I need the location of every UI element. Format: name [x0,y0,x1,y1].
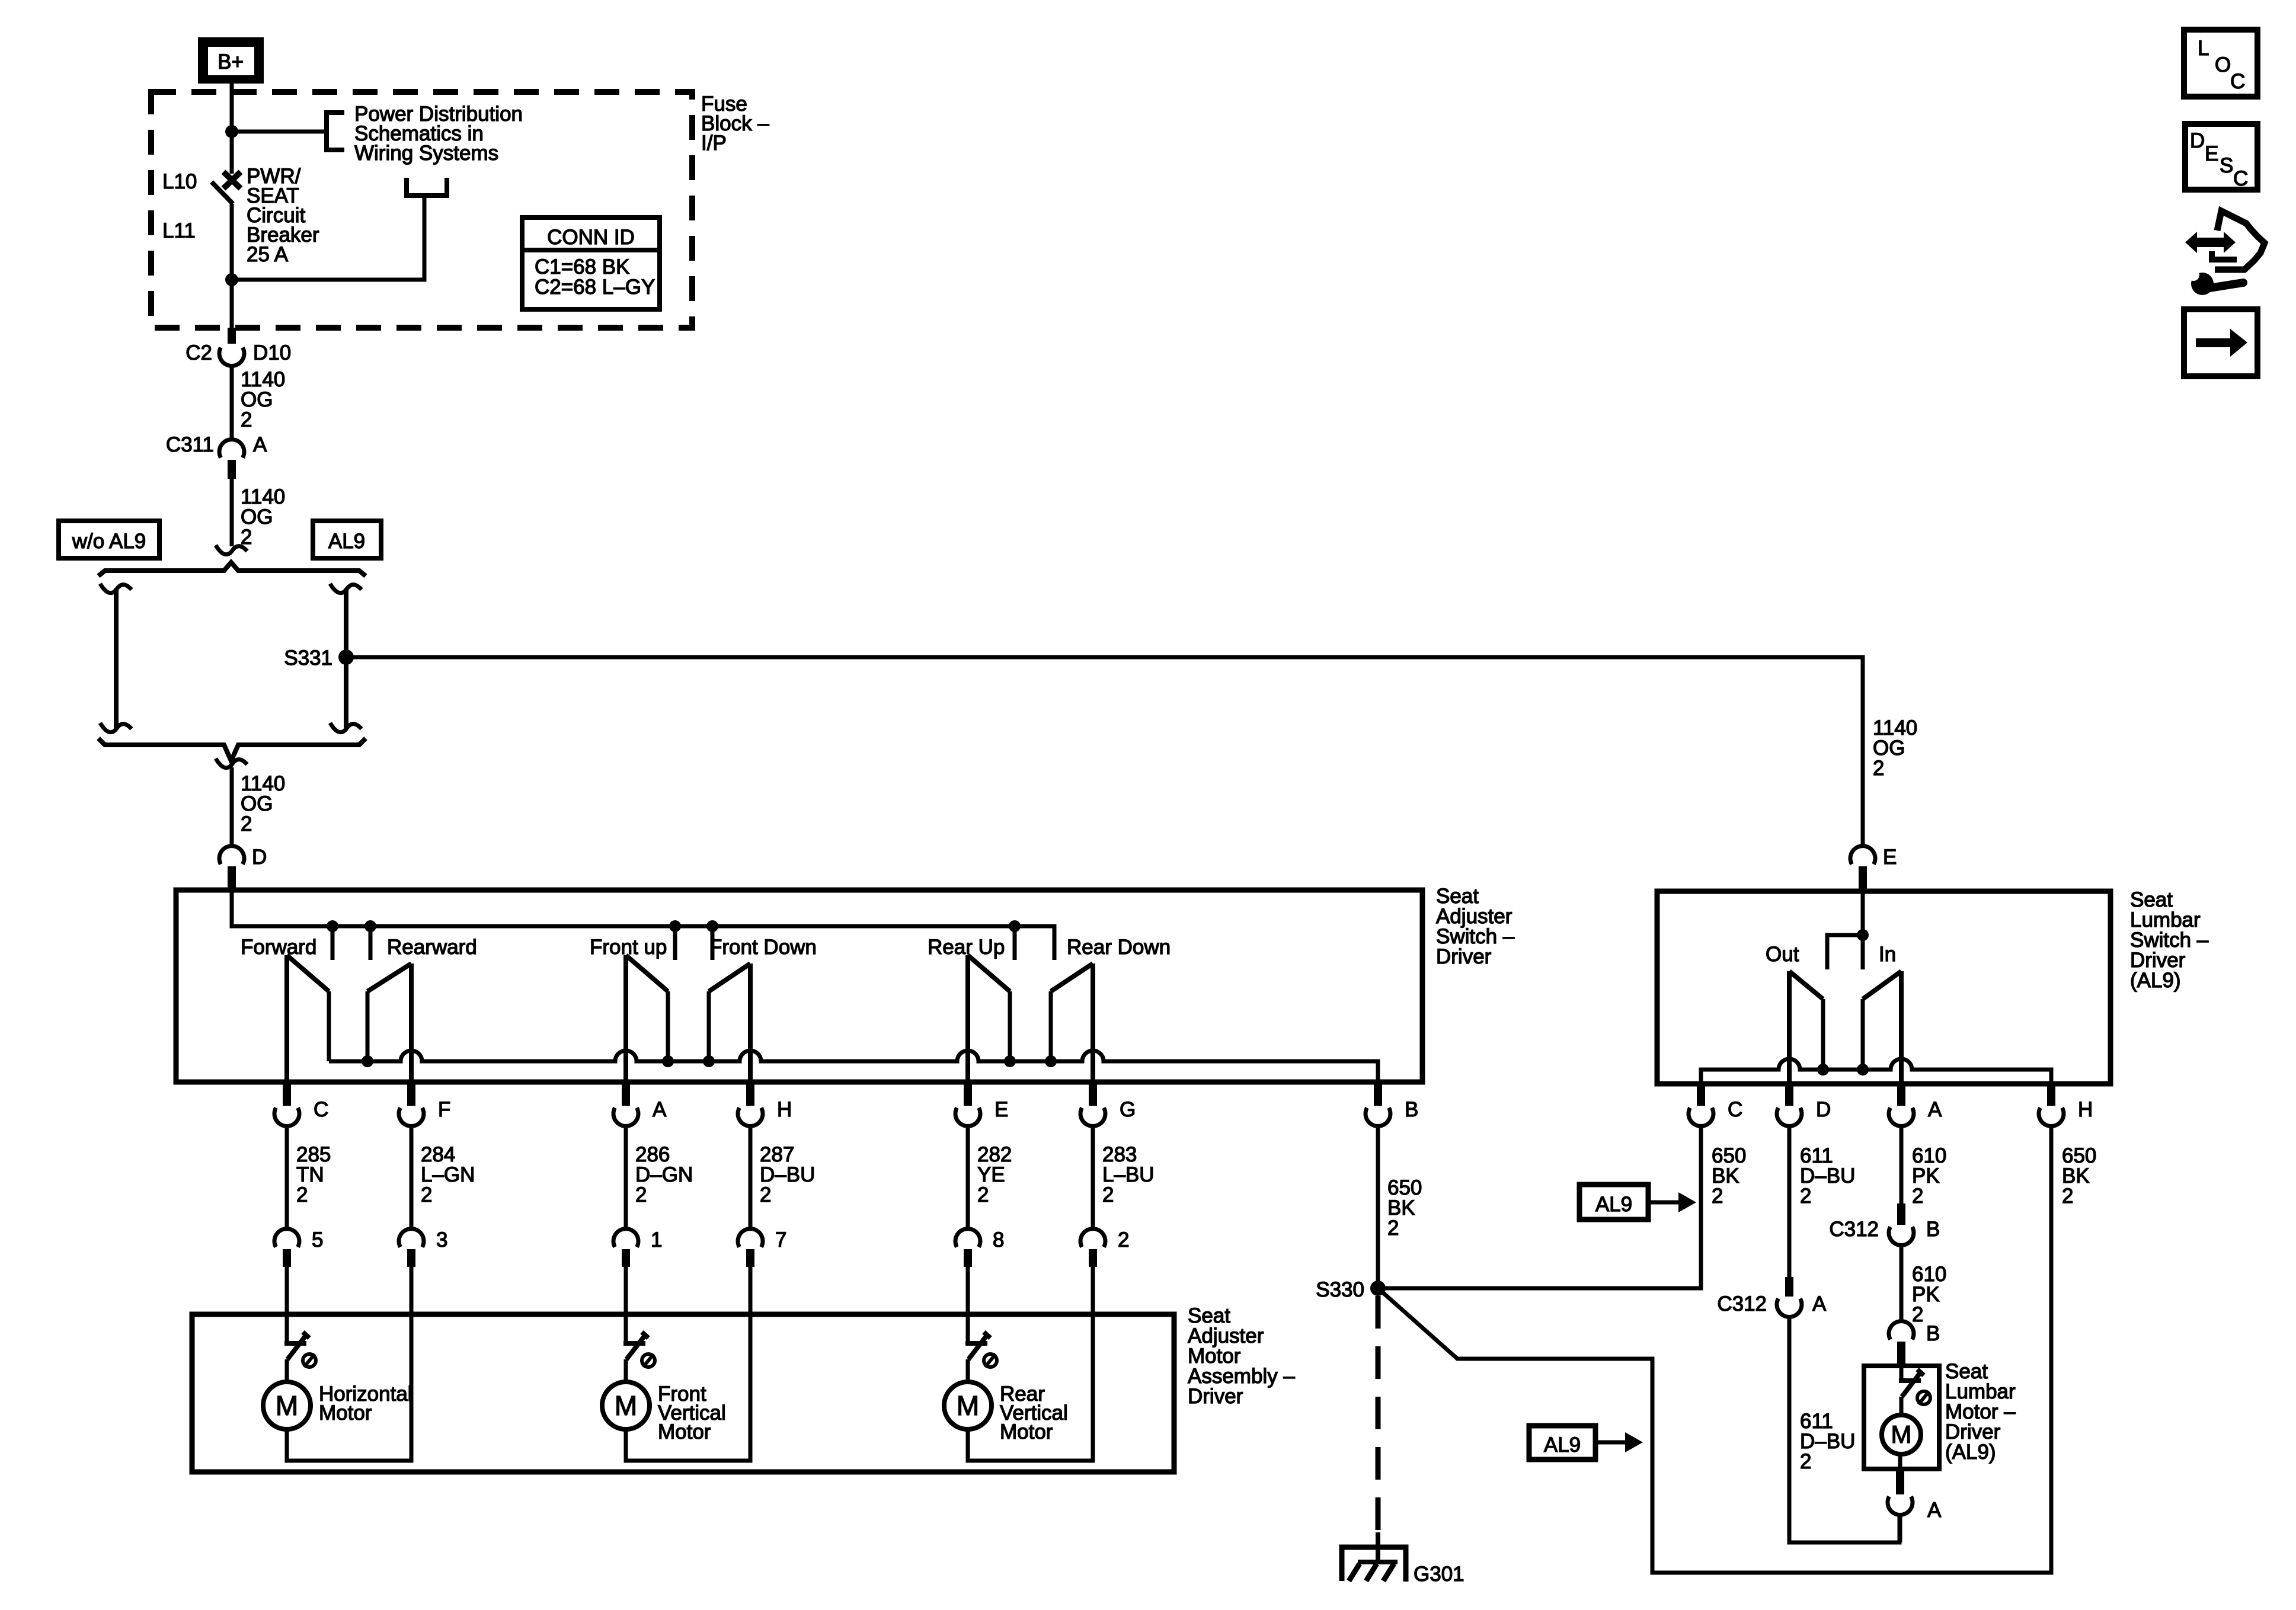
switch Forward [241,936,329,1082]
svg-text:E: E [1883,846,1897,869]
connector C2 pin D10 [186,341,291,366]
svg-text:2: 2 [1712,1185,1723,1208]
wire lumbar feed split [1827,891,1869,969]
reference bracket Power Distribution [327,113,344,150]
svg-text:D10: D10 [253,341,291,364]
wire pin feed to breaker Horizontal Motor [285,1267,289,1343]
label Power Distribution Schematics in Wiring Systems [354,103,523,165]
connector pin 8 seat adjuster motor assembly [955,1228,1004,1267]
svg-text:S330: S330 [1316,1278,1364,1301]
option tag w/o AL9 [59,521,159,558]
svg-text:2: 2 [1387,1217,1399,1240]
svg-text:O: O [2215,53,2231,76]
svg-text:2: 2 [760,1183,771,1206]
wire 1140 OG 2 segment 1 [232,367,285,438]
wire 610 PK 2 to lumbar motor [1901,1247,1946,1326]
motor M1 Horizontal Motor [263,1359,412,1429]
node junction breaker output [225,273,238,286]
svg-text:2: 2 [635,1183,647,1206]
option split brace bottom [98,738,366,761]
svg-text:(AL9): (AL9) [1945,1441,1996,1464]
ground G301 [1342,1532,1464,1586]
wire 282 YE 2 [968,1128,1012,1227]
svg-text:H: H [2078,1098,2093,1121]
switch Front up [590,936,668,1082]
svg-text:Forward: Forward [241,936,316,959]
connector pin 7 seat adjuster motor assembly [738,1228,786,1267]
svg-text:A: A [1812,1292,1827,1315]
switch Rear Down [1051,936,1171,1082]
svg-text:A: A [253,433,267,456]
motor M2 Front Vertical Motor [602,1359,726,1443]
connector pin H seat adjuster switch [738,1083,792,1126]
wire switch common return to pin B [329,1051,1378,1082]
pin L11 [162,219,196,242]
svg-text:L11: L11 [162,219,196,242]
connector pin 1 seat adjuster motor assembly [613,1228,662,1267]
option tag AL9 arrow 2 [1529,1426,1643,1459]
svg-text:E: E [994,1098,1008,1121]
switch Rear Up [928,936,1010,1082]
svg-text:AL9: AL9 [328,530,365,553]
svg-text:In: In [1879,943,1896,966]
connector pin H seat lumbar switch [2039,1084,2093,1126]
circuit breaker PWR/SEAT 25A [212,132,241,280]
wire 287 D–BU 2 [750,1128,815,1227]
svg-text:B: B [1926,1322,1940,1345]
svg-text:2: 2 [1118,1228,1129,1251]
svg-text:H: H [777,1098,792,1121]
svg-text:CONN ID: CONN ID [547,226,635,249]
connector pin A seat adjuster switch [613,1083,667,1126]
wire dashed S330 to ground [1376,1296,1381,1536]
connector pin C seat lumbar switch [1689,1084,1742,1126]
svg-text:S: S [2220,154,2233,177]
svg-text:2: 2 [1912,1303,1923,1326]
splice S331 [284,646,354,670]
label Seat Adjuster Switch - Driver [1436,885,1515,968]
wire label 1140 OG 2 lumbar feed [1873,716,1917,780]
svg-text:2: 2 [1912,1185,1923,1208]
wire 284 L–GN 2 [411,1128,475,1227]
svg-text:1: 1 [651,1228,662,1251]
svg-text:C: C [2233,167,2248,190]
svg-text:C: C [2230,70,2245,93]
wire break symbol below option split [216,758,247,768]
wire S330 to lumbar switch pin H via AL9 branch [1378,1128,2051,1573]
svg-text:B: B [1405,1098,1418,1121]
svg-text:2: 2 [296,1183,308,1206]
node junction on B+ feed [225,125,238,138]
option tag AL9 [313,521,381,558]
svg-text:7: 7 [775,1228,786,1251]
wire 283 L–BU 2 [1093,1128,1155,1227]
svg-text:C: C [314,1098,328,1121]
svg-text:C2=68 L–GY: C2=68 L–GY [535,276,655,299]
svg-text:Wiring Systems: Wiring Systems [354,142,498,165]
svg-text:C311: C311 [166,433,214,456]
switch Rearward [367,936,477,1082]
motor M3 Rear Vertical Motor [944,1359,1068,1443]
svg-text:M: M [957,1390,979,1421]
svg-text:AL9: AL9 [1544,1433,1581,1457]
node junctions on common return [362,1055,1057,1067]
connector pin F seat adjuster switch [399,1083,450,1126]
svg-text:5: 5 [312,1228,323,1251]
icon DESC [2185,124,2257,190]
wire 650 BK 2 pin B to S330 [1378,1128,1422,1288]
fuse block dashed box [151,92,692,328]
connector pin C seat adjuster switch [274,1083,328,1126]
wire 286 D–GN 2 [626,1128,693,1227]
svg-text:L: L [2198,37,2209,60]
svg-text:AL9: AL9 [1595,1193,1632,1216]
svg-text:Motor: Motor [658,1420,711,1443]
connector C312 pin A [1717,1277,1827,1317]
svg-text:I/P: I/P [701,132,727,155]
wire motor return Rear Vertical Motor [968,1267,1093,1461]
svg-text:C312: C312 [1829,1218,1879,1241]
svg-text:L10: L10 [162,170,197,193]
label Fuse Block - I/P [701,92,769,155]
svg-text:F: F [438,1098,450,1121]
wire pin feed to breaker Front Vertical Motor [624,1267,628,1343]
wire 1140 OG 2 segment 3 [232,767,285,844]
option branch w/o AL9 wire [100,584,132,732]
svg-text:2: 2 [1873,757,1884,780]
svg-text:G301: G301 [1414,1563,1464,1586]
splice S330 [1316,1278,1386,1301]
wire motor return Horizontal Motor [287,1267,411,1461]
table CONN ID [522,217,660,309]
label Seat Lumbar Motor - Driver (AL9) [1945,1360,2016,1464]
wire 650 BK 2 lumbar pin H [2051,1128,2096,1573]
svg-text:D: D [2190,129,2205,152]
wire lumbar motor pin A to return [1898,1517,1902,1542]
icon LOC [2184,30,2257,97]
connector pin 5 seat adjuster motor assembly [274,1228,323,1267]
svg-text:M: M [615,1390,637,1421]
svg-text:E: E [2205,142,2218,165]
icon component view with wrench [2185,211,2265,295]
svg-text:Motor: Motor [319,1401,372,1425]
svg-text:w/o AL9: w/o AL9 [72,530,146,553]
connector pin E seat lumbar switch [1850,846,1897,891]
svg-text:2: 2 [241,812,252,836]
wire 611 D-BU 2 to lumbar motor return [1789,1318,1900,1542]
wire 285 TN 2 [287,1128,331,1227]
icon forward reference arrow [2184,309,2257,376]
svg-text:Rear Down: Rear Down [1067,936,1171,959]
svg-text:B+: B+ [218,50,244,73]
wire to power distribution reference [232,130,327,134]
thermal breaker Horizontal Motor [284,1332,316,1367]
svg-text:M: M [1891,1420,1912,1448]
svg-text:2: 2 [421,1183,432,1206]
svg-text:D: D [1816,1098,1831,1121]
wire motor return Front Vertical Motor [626,1267,750,1461]
wire 610 PK 2 lumbar pin A [1901,1128,1946,1208]
wire lumbar switch return [1701,1059,2051,1084]
component box Seat Lumbar Switch - Driver (AL9) [1657,891,2110,1084]
wire from reference bracket to breaker output [232,196,424,280]
connector pin D seat adjuster switch [219,846,267,891]
connector pin 3 seat adjuster motor assembly [399,1228,447,1267]
svg-text:A: A [1927,1499,1942,1522]
svg-text:Front Down: Front Down [709,936,817,959]
connector C312 pin B [1829,1204,1940,1245]
connector pin A seat lumbar switch [1889,1084,1942,1126]
svg-text:D: D [252,846,267,869]
wire break symbol at option split [216,545,247,555]
svg-text:Driver: Driver [1188,1385,1243,1408]
svg-text:25 A: 25 A [247,243,289,266]
wire S330 to lumbar switch pin C [1378,1128,1701,1288]
svg-text:2: 2 [1102,1183,1114,1206]
power terminal B+ [198,37,264,84]
svg-text:2: 2 [241,408,252,431]
component box Seat Adjuster Motor Assembly - Driver [192,1314,1174,1472]
label PWR/SEAT Circuit Breaker 25 A [247,165,319,266]
wire breaker to connector C2 [228,280,236,344]
node stub contacts on feed bus [327,920,1021,960]
label Seat Lumbar Switch - Driver (AL9) [2130,888,2209,992]
thermal breaker Front Vertical Motor [623,1332,655,1367]
option branch AL9 wire [330,584,362,732]
svg-text:8: 8 [993,1228,1004,1251]
wire pin feed to breaker Rear Vertical Motor [966,1267,970,1343]
wire B+ to fuse block [230,84,234,132]
reference bracket CONN ID feed [407,178,447,196]
wire S331 to lumbar switch feed [346,657,1863,844]
option tag AL9 arrow 1 [1579,1185,1696,1219]
label Seat Adjuster Motor Assembly - Driver [1188,1304,1295,1408]
svg-text:Out: Out [1766,943,1799,966]
connector pin A seat lumbar motor [1888,1454,1942,1522]
switch Front Down [709,936,817,1082]
wire 650 BK 2 lumbar pin C [1701,1128,1746,1288]
svg-text:2: 2 [1800,1450,1811,1473]
connector pin D seat lumbar switch [1777,1084,1831,1126]
wire 1140 OG 2 segment 2 [228,460,285,549]
connector pin 2 seat adjuster motor assembly [1080,1228,1129,1267]
thermal breaker seat lumbar motor [1899,1363,1930,1404]
connector pin E seat adjuster switch [955,1083,1008,1126]
svg-text:C312: C312 [1717,1292,1767,1315]
svg-text:(AL9): (AL9) [2130,969,2181,992]
svg-text:C2: C2 [186,341,212,364]
svg-text:2: 2 [1800,1185,1811,1208]
svg-text:Motor: Motor [1000,1420,1053,1443]
wire 611 D-BU 2 lumbar pin D [1789,1128,1855,1277]
wire switch feed bus [232,891,1054,960]
svg-text:G: G [1120,1098,1136,1121]
svg-text:2: 2 [2062,1185,2073,1208]
component box Seat Lumbar Motor - Driver (AL9) [1864,1366,1939,1469]
svg-text:2: 2 [977,1183,989,1206]
connector C311 pin A [166,433,267,458]
pin L10 [162,170,197,193]
switch Out [1766,943,1823,1084]
svg-text:S331: S331 [284,646,332,670]
svg-text:A: A [653,1098,667,1121]
connector pin B seat adjuster switch [1366,1083,1418,1126]
svg-text:M: M [276,1390,298,1421]
component box Seat Adjuster Switch - Driver [176,890,1422,1082]
switch In [1863,943,1901,1084]
connector pin B seat lumbar motor [1889,1321,1940,1363]
svg-text:3: 3 [436,1228,447,1251]
svg-text:C: C [1728,1098,1742,1121]
svg-text:Driver: Driver [1436,945,1492,968]
svg-text:Rearward: Rearward [387,936,477,959]
option split brace top [98,562,366,576]
thermal breaker Rear Vertical Motor [965,1332,997,1367]
connector pin G seat adjuster switch [1080,1083,1136,1126]
svg-text:B: B [1926,1218,1940,1241]
svg-text:A: A [1928,1098,1942,1121]
motor M seat lumbar [1882,1397,1921,1454]
